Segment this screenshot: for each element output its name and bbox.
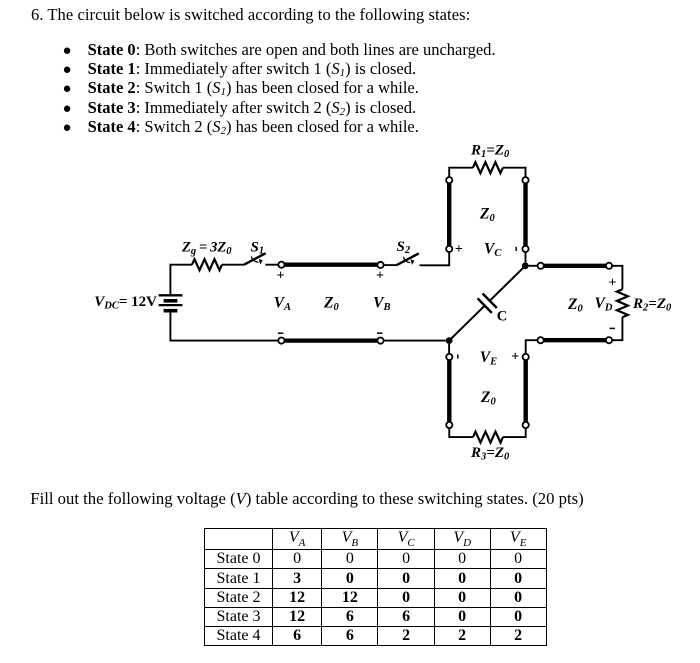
right line lower-right terminal — [606, 337, 612, 343]
svg-text:Z0: Z0 — [480, 389, 496, 408]
svg-text:S1: S1 — [251, 239, 265, 256]
wire S1 to node A — [265, 264, 278, 266]
junction dot top — [522, 262, 529, 269]
svg-text:Z0: Z0 — [567, 296, 583, 315]
svg-text:S2: S2 — [397, 239, 411, 256]
svg-text:VD: VD — [595, 295, 613, 314]
switch S1 blade — [244, 253, 266, 265]
svg-text:VB: VB — [373, 295, 390, 314]
top loop wire left — [449, 168, 473, 177]
svg-text:+: + — [277, 268, 285, 283]
wire node B bottom to junction — [384, 340, 446, 342]
top stub left thick conductor — [447, 183, 451, 246]
top stub right thick conductor — [523, 183, 527, 246]
transmission line 3 top conductor — [544, 264, 606, 268]
resistor R2 — [617, 289, 628, 317]
capacitor C plate upper — [483, 294, 497, 309]
svg-text:R3=Z0: R3=Z0 — [470, 445, 510, 463]
svg-text:+: + — [455, 242, 463, 257]
node A top terminal — [278, 262, 284, 268]
bottom stub left thick conductor — [447, 360, 451, 422]
switch S2 blade — [396, 253, 419, 265]
minus at node A bottom — [278, 332, 283, 334]
svg-text:Z0: Z0 — [323, 295, 339, 314]
bottom loop wire left — [449, 428, 473, 437]
svg-text:R1=Z0: R1=Z0 — [470, 143, 510, 161]
resistor R3 — [473, 432, 503, 443]
svg-text:VDC= 12V: VDC= 12V — [94, 294, 157, 312]
top stub upper-left terminal — [446, 177, 452, 183]
capacitor C wire upper — [490, 266, 526, 301]
wire battery top to resistor Zg — [170, 265, 192, 296]
svg-text:VC: VC — [484, 241, 502, 260]
top stub upper-right terminal — [522, 177, 528, 183]
wire V_E right to right line — [526, 340, 538, 354]
bullet list — [63, 41, 496, 137]
bottom stub upper-right terminal — [523, 354, 529, 360]
node B top terminal — [377, 262, 383, 268]
wire S2 to top stub — [420, 252, 450, 265]
transmission line 1 top conductor — [285, 263, 378, 267]
node A bottom terminal — [278, 338, 284, 344]
switch S1 arrow — [251, 256, 258, 262]
fill out instruction line — [30, 491, 583, 508]
battery V_DC plates — [159, 295, 183, 310]
wire top stub to junction — [525, 252, 527, 262]
svg-text:C: C — [497, 308, 507, 324]
capacitor C wire lower — [449, 306, 485, 341]
top stub lower-left terminal — [446, 246, 452, 252]
right line lower-left terminal — [538, 337, 544, 343]
top stub lower-right terminal — [522, 246, 528, 252]
svg-text:VA: VA — [274, 295, 291, 314]
wire to R2 top — [612, 266, 622, 290]
bottom stub right thick conductor — [524, 360, 528, 422]
bottom stub lower-left terminal — [446, 422, 452, 428]
node B bottom terminal — [377, 338, 383, 344]
top loop wire right — [503, 168, 526, 177]
minus at node B bottom — [377, 332, 382, 334]
bottom loop wire right — [503, 428, 526, 437]
voltage table — [204, 528, 547, 646]
minus at V_D — [610, 327, 615, 329]
wire R2 bottom — [612, 317, 622, 340]
wire junction to right line — [529, 265, 538, 267]
svg-text:Z0: Z0 — [479, 206, 495, 225]
resistor R1 — [473, 162, 503, 173]
svg-text:Zg = 3Z0: Zg = 3Z0 — [181, 240, 232, 258]
svg-text:+: + — [376, 269, 384, 284]
transmission line 1 bottom conductor — [285, 338, 378, 342]
transmission line 3 bottom conductor — [544, 338, 606, 342]
switch S2 arrow — [403, 257, 410, 263]
wire junction to bottom stub — [448, 344, 450, 354]
bottom stub lower-right terminal — [523, 422, 529, 428]
svg-text:R2=Z0: R2=Z0 — [632, 296, 672, 314]
wire Zg to S1 — [222, 264, 244, 266]
svg-text:+: + — [609, 276, 617, 291]
svg-text:+: + — [511, 350, 519, 365]
minus tick at V_C right — [515, 247, 517, 251]
capacitor C plate lower — [478, 298, 492, 313]
minus tick at V_E left — [457, 355, 459, 359]
title line — [31, 7, 470, 24]
svg-text:VE: VE — [480, 349, 497, 368]
resistor Zg — [192, 259, 222, 270]
wire node B to S2 — [384, 264, 397, 266]
wire battery bottom — [170, 311, 278, 341]
junction dot bottom — [446, 337, 453, 344]
bottom stub upper-left terminal — [446, 354, 452, 360]
right line upper-right terminal — [606, 263, 612, 269]
right line upper-left terminal — [538, 263, 544, 269]
